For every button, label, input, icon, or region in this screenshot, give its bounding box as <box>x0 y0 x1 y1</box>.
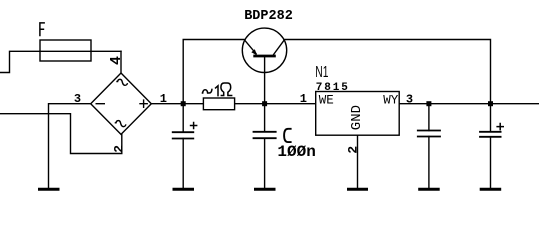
svg-text:GND: GND <box>349 105 365 130</box>
svg-text:1: 1 <box>160 92 167 106</box>
svg-text:1: 1 <box>300 92 307 106</box>
svg-text:2: 2 <box>111 145 126 153</box>
svg-text:1ØØn: 1ØØn <box>277 143 315 161</box>
svg-text:7815: 7815 <box>316 82 350 94</box>
svg-text:BDP282: BDP282 <box>244 9 293 24</box>
svg-text:3: 3 <box>406 92 413 106</box>
svg-text:4: 4 <box>108 56 125 65</box>
svg-text:N1: N1 <box>315 63 328 81</box>
svg-text:3: 3 <box>74 92 81 106</box>
svg-text:2: 2 <box>346 146 361 154</box>
svg-text:WY: WY <box>383 94 399 108</box>
svg-text:WE: WE <box>319 94 334 108</box>
